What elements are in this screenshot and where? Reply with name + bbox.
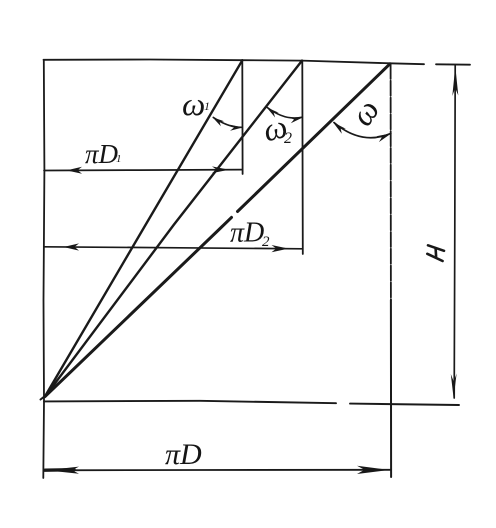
diagonal 2 [46, 61, 303, 396]
diagonal 1 [46, 60, 243, 395]
angle arc omega1 [213, 117, 241, 127]
H dimension line [454, 66, 455, 399]
svg-text:2: 2 [284, 130, 292, 147]
arrow piD right [357, 466, 389, 474]
origin tick [41, 393, 50, 400]
arrow omega1 arc right [230, 125, 243, 131]
bottom edge [44, 401, 459, 405]
svg-text:πD: πD [230, 218, 264, 249]
angle arc omega2 [267, 108, 302, 119]
arrow piD2 right [272, 245, 289, 252]
svg-text:πD: πD [85, 139, 119, 169]
svg-text:πD: πD [165, 438, 202, 471]
arrow piD1 left [67, 167, 83, 174]
vertical 3 lower [390, 300, 392, 477]
arrow omega2 arc left [267, 107, 279, 117]
angle arc omega [334, 123, 391, 138]
arrow omega2 arc right [289, 117, 303, 123]
arrow piD left [46, 467, 79, 474]
svg-text:2: 2 [262, 234, 270, 250]
diagonal 3 [45, 64, 390, 397]
vertical 2 [301, 61, 304, 254]
arrow omega1 arc left [213, 117, 225, 126]
arrow H up [452, 66, 458, 96]
svg-text:ω: ω [182, 87, 205, 123]
top edge [44, 60, 471, 65]
arrow omega arc right [376, 133, 391, 142]
arrow piD2 left [64, 243, 80, 250]
arrow H down [451, 374, 457, 399]
dimension line piD1 [44, 169, 242, 172]
svg-text:1: 1 [116, 153, 122, 165]
svg-text:ω: ω [344, 93, 387, 133]
piD left heavy stroke [45, 468, 74, 472]
dimension line piD [44, 469, 391, 472]
label H (hand strokes) [427, 245, 444, 261]
vertical 3 upper (dashed extension) [390, 64, 392, 300]
svg-text:1: 1 [204, 99, 210, 113]
dimension line piD2 [44, 247, 302, 249]
arrow omega arc left [333, 122, 346, 134]
vertical 1 [241, 60, 243, 174]
arrow piD1 right [212, 166, 229, 173]
left edge [43, 60, 44, 478]
